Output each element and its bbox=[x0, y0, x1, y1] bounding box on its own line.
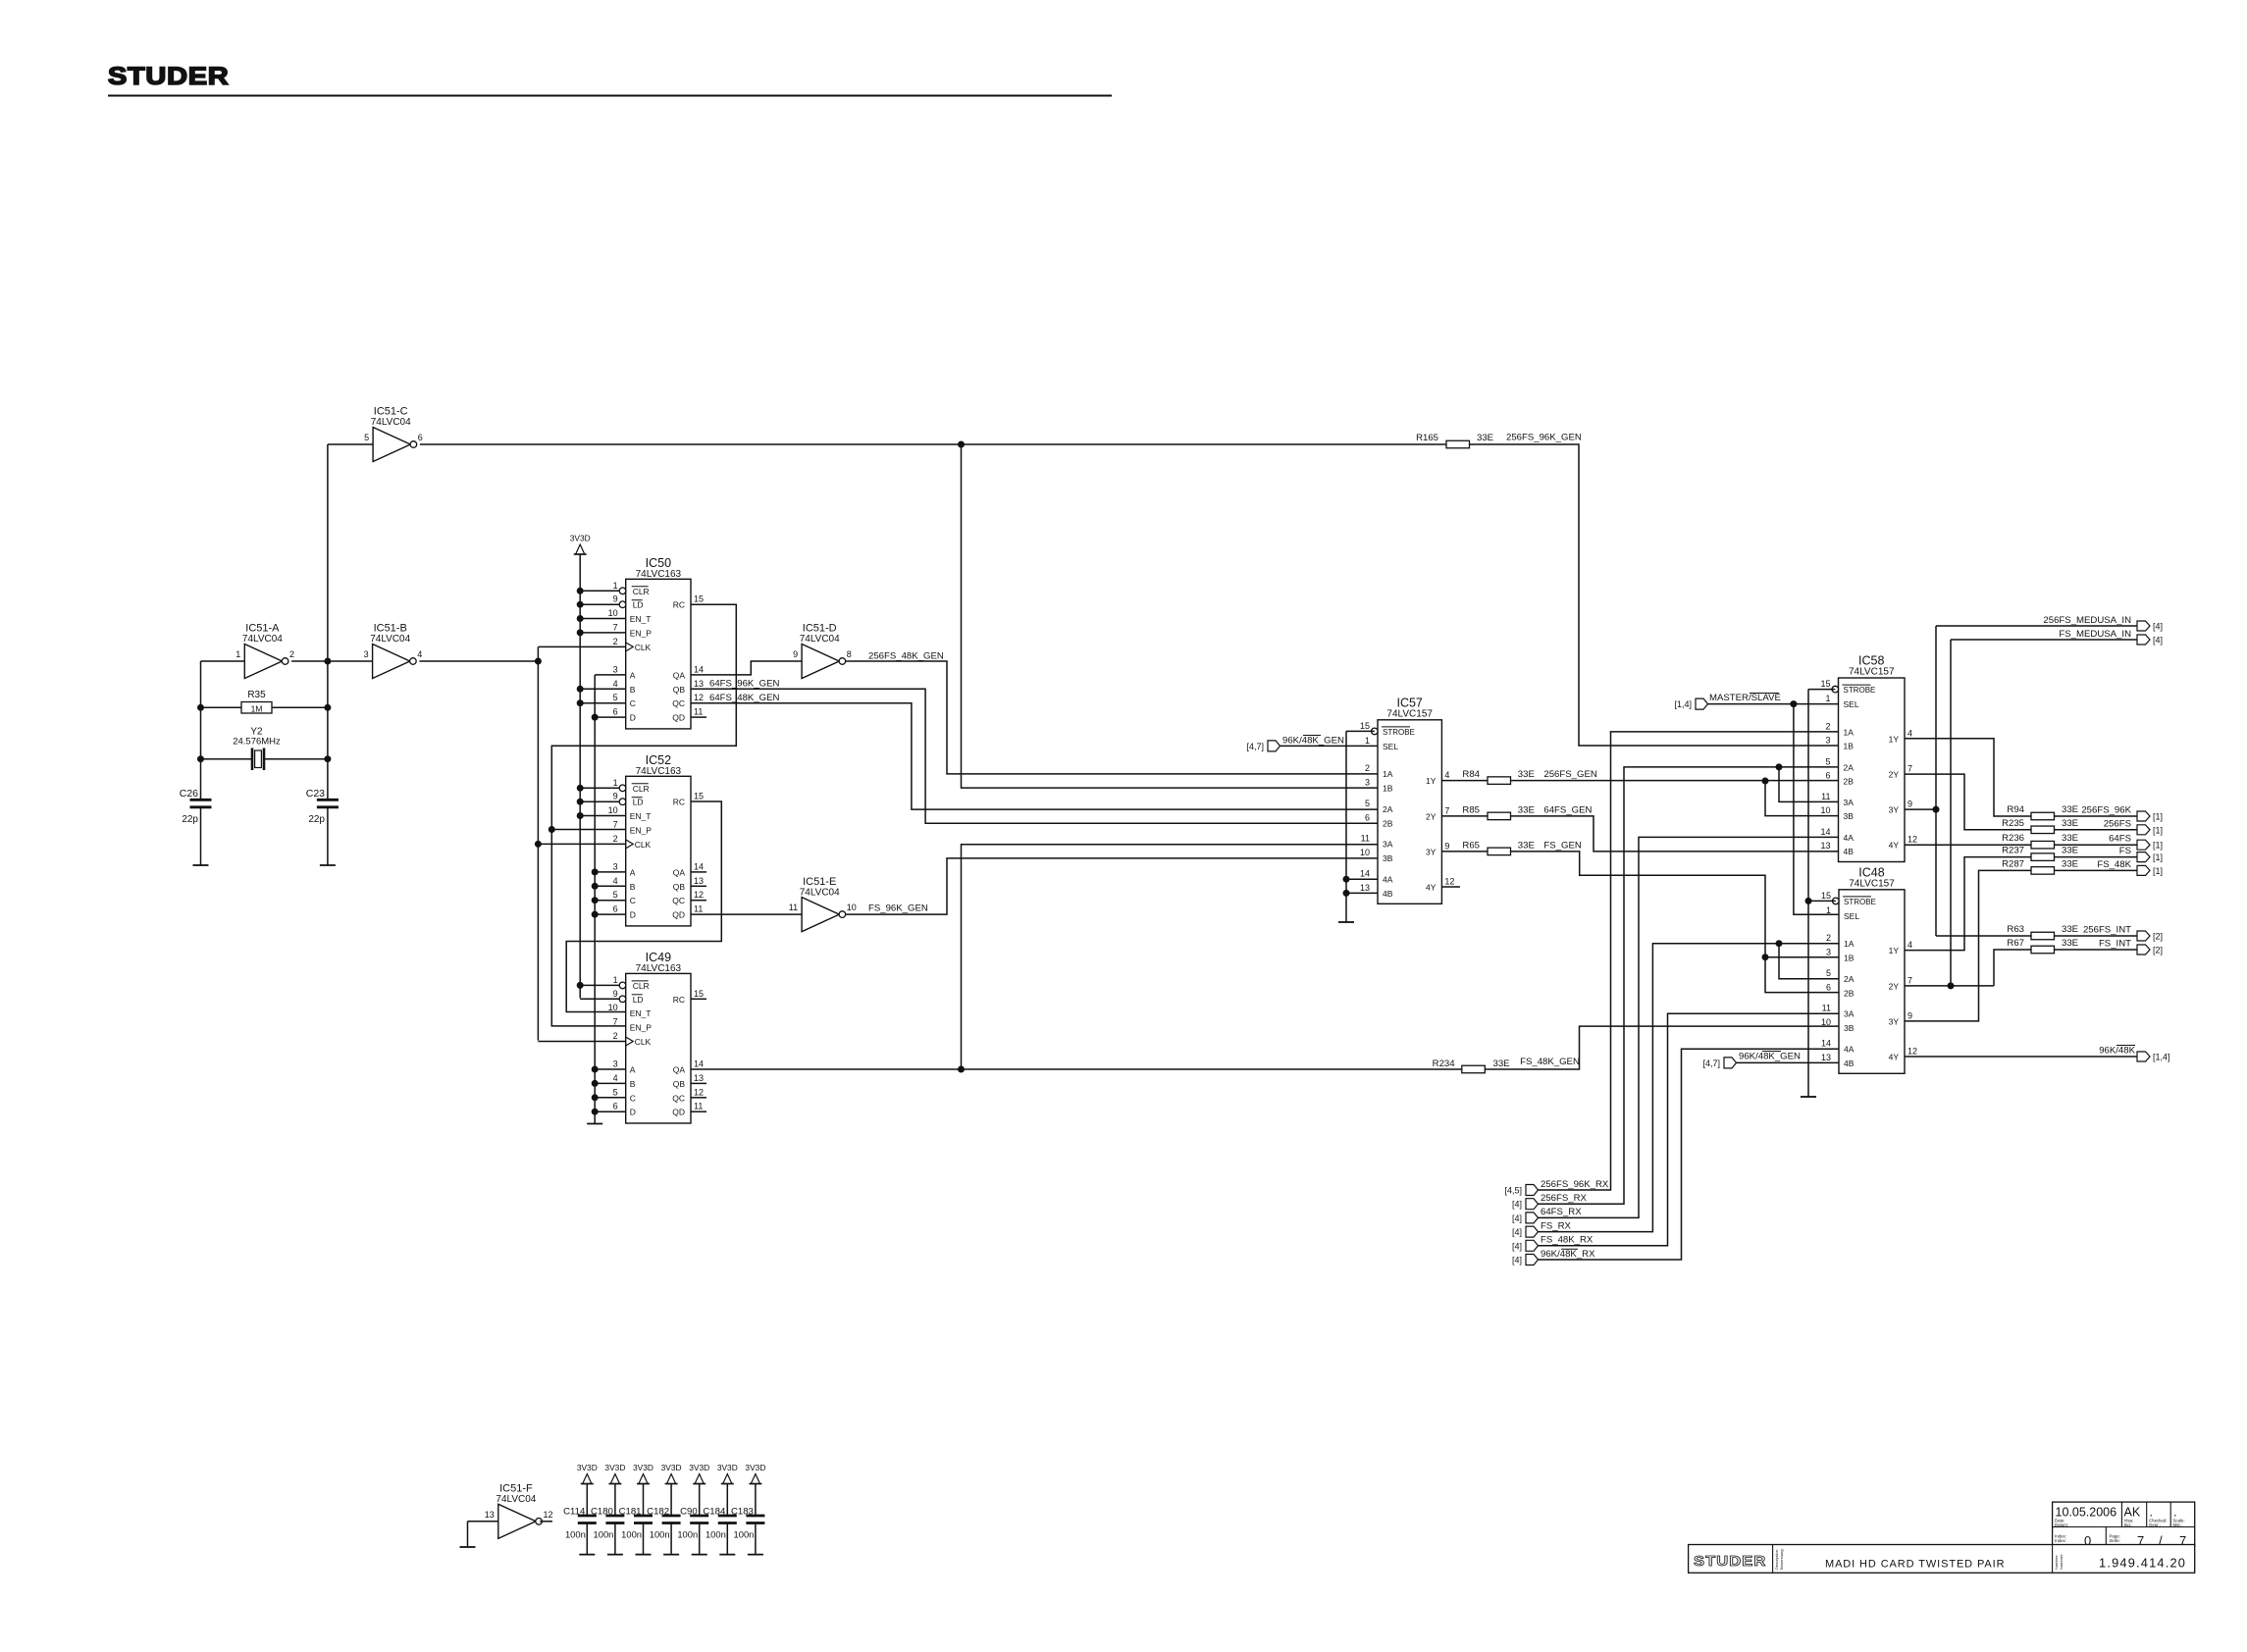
wire IC57 4A tie bbox=[1346, 878, 1378, 880]
flag FS_48K output bbox=[2137, 865, 2163, 876]
wire R35 left bbox=[201, 706, 242, 708]
svg-text:1M: 1M bbox=[251, 704, 263, 714]
svg-text:R235: R235 bbox=[2002, 818, 2024, 829]
resistor R65 33E bbox=[1462, 840, 1534, 854]
wire IC49 QD stub bbox=[691, 1110, 706, 1112]
wire SEL rail to IC48 bbox=[1794, 704, 1839, 915]
wire R234 left from IC49 QA bbox=[1461, 1068, 1463, 1070]
svg-text:RC: RC bbox=[673, 600, 685, 610]
svg-text:4: 4 bbox=[1907, 728, 1912, 738]
svg-text:STROBE: STROBE bbox=[1844, 898, 1876, 906]
svg-text:3V3D: 3V3D bbox=[689, 1463, 709, 1472]
wire net 64FS_48K_GEN QC to IC57 2A bbox=[691, 703, 1378, 809]
wire Y2 left bbox=[201, 758, 252, 760]
ground below C181 bbox=[636, 1554, 652, 1556]
junction 3V3D IC52 LD bbox=[577, 799, 584, 805]
svg-text:C: C bbox=[630, 698, 636, 708]
overline SLAVE in MASTER/SLAVE bbox=[1750, 693, 1779, 695]
label net 64FS_96K_GEN bbox=[709, 679, 780, 690]
svg-text:FS_48K: FS_48K bbox=[2097, 859, 2131, 870]
junction ABCD IC52 C bbox=[592, 897, 599, 903]
junction 3V3D IC50 B bbox=[577, 686, 584, 693]
svg-text:EN_P: EN_P bbox=[630, 1023, 653, 1033]
svg-text:B: B bbox=[630, 1079, 636, 1089]
svg-text:IC58: IC58 bbox=[1858, 654, 1884, 668]
wire net FS_MEDUSA_IN bbox=[1951, 639, 2137, 641]
junction strobe rail at IC48 bbox=[1805, 898, 1812, 904]
svg-text:QD: QD bbox=[672, 1108, 685, 1117]
svg-text:64FS_96K_GEN: 64FS_96K_GEN bbox=[709, 679, 780, 690]
junction 3V3D IC50 CLR bbox=[577, 588, 584, 594]
resistor R234 33E bbox=[1433, 1058, 1510, 1073]
svg-text:4B: 4B bbox=[1844, 847, 1855, 856]
svg-text:EN_T: EN_T bbox=[630, 811, 652, 821]
svg-text:7: 7 bbox=[1907, 975, 1912, 985]
resistor R94 33E bbox=[2007, 804, 2078, 820]
capacitor C182 100n bbox=[647, 1507, 680, 1540]
inverter IC51-C 74LVC04 bbox=[364, 406, 423, 462]
svg-text:13: 13 bbox=[1820, 841, 1830, 851]
svg-text:[1]: [1] bbox=[2153, 812, 2163, 822]
flag 96K/48K_GEN input to IC48 4B bbox=[1702, 1058, 1736, 1068]
wire IC58 2B to 3B jumper bbox=[1765, 781, 1839, 816]
wire IC52 QB stub bbox=[691, 885, 706, 887]
svg-text:6: 6 bbox=[1365, 812, 1370, 822]
svg-text:QD: QD bbox=[672, 713, 685, 723]
svg-text:4Y: 4Y bbox=[1889, 1053, 1900, 1062]
svg-text:[4]: [4] bbox=[1512, 1227, 1522, 1237]
junction CLK rail IC52 bbox=[535, 841, 542, 848]
ground IC51-F input bbox=[460, 1546, 476, 1548]
svg-text:100n: 100n bbox=[734, 1529, 755, 1540]
svg-text:3V3D: 3V3D bbox=[577, 1463, 598, 1472]
label net 64FS_48K_GEN bbox=[709, 693, 780, 703]
wire IC51-F input to ground bbox=[467, 1522, 469, 1547]
svg-text:13: 13 bbox=[694, 679, 704, 689]
wire IC49 CLR from 3V3D rail bbox=[580, 984, 619, 986]
wire IC52 QD to IC51-E bbox=[691, 913, 802, 915]
svg-text:LD: LD bbox=[633, 600, 644, 610]
svg-text:Seite:: Seite: bbox=[2110, 1538, 2120, 1543]
svg-text:256FS: 256FS bbox=[2104, 818, 2131, 829]
svg-text:3V3D: 3V3D bbox=[717, 1463, 738, 1472]
svg-text:6: 6 bbox=[1825, 771, 1830, 781]
junction FS_48K_GEN to IC57 3A bbox=[958, 1066, 965, 1073]
junction 3V3D IC50 EN_T bbox=[577, 615, 584, 622]
counter IC49 74LVC163 bbox=[608, 951, 704, 1123]
wire 256FS_MEDUSA_IN riser bbox=[1935, 626, 1937, 936]
svg-text:C183: C183 bbox=[731, 1507, 754, 1518]
svg-text:1.949.414.20: 1.949.414.20 bbox=[2099, 1556, 2186, 1571]
flag FS_RX input bbox=[1512, 1226, 1539, 1237]
wire 3V3D to C184 bbox=[726, 1484, 728, 1516]
svg-text:Index:: Index: bbox=[2055, 1538, 2066, 1543]
svg-text:CLR: CLR bbox=[633, 981, 650, 991]
label net MASTER/SLAVE bbox=[1709, 693, 1781, 703]
header rule bbox=[108, 95, 1112, 97]
svg-text:CLK: CLK bbox=[635, 840, 652, 850]
svg-text:74LVC04: 74LVC04 bbox=[370, 634, 410, 645]
wire R236 to flag bbox=[2055, 844, 2138, 846]
svg-text:33E: 33E bbox=[2062, 818, 2078, 829]
wire IC58 4Y to R236 bbox=[1905, 844, 2031, 846]
label net 256FS_INT bbox=[2083, 925, 2131, 936]
svg-text:A: A bbox=[630, 670, 636, 680]
svg-text:R234: R234 bbox=[1433, 1058, 1456, 1069]
svg-text:C181: C181 bbox=[619, 1507, 642, 1518]
flag FS_MEDUSA_IN output bbox=[2137, 635, 2163, 645]
svg-text:IC51-F: IC51-F bbox=[499, 1483, 533, 1495]
svg-text:FS_MEDUSA_IN: FS_MEDUSA_IN bbox=[2059, 629, 2131, 640]
wire net 64FS_96K_GEN QB to IC57 2B bbox=[691, 689, 1378, 823]
wire IC50 LD from 3V3D rail bbox=[580, 603, 619, 605]
power symbol 3V3D for C90 bbox=[689, 1463, 709, 1484]
svg-text:74LVC157: 74LVC157 bbox=[1386, 708, 1433, 719]
svg-text:[1]: [1] bbox=[2153, 852, 2163, 862]
flag 256FS output bbox=[2137, 825, 2163, 836]
junction 3V3D IC49 CLR bbox=[577, 982, 584, 989]
STUDER logo header bbox=[108, 62, 229, 90]
label net FS_GEN bbox=[1543, 840, 1581, 851]
svg-text:[1,4]: [1,4] bbox=[2153, 1053, 2170, 1062]
ground below C183 bbox=[748, 1554, 763, 1556]
svg-text:74LVC04: 74LVC04 bbox=[800, 887, 840, 898]
svg-text:2: 2 bbox=[613, 1031, 618, 1041]
svg-text:.: . bbox=[2173, 1506, 2176, 1520]
svg-text:SEL: SEL bbox=[1383, 742, 1398, 751]
svg-text:33E: 33E bbox=[1493, 1058, 1510, 1069]
svg-text:3: 3 bbox=[613, 861, 618, 871]
svg-text:12: 12 bbox=[694, 1087, 704, 1097]
svg-text:QD: QD bbox=[672, 910, 685, 920]
wire IC58 STROBE from strobe rail bbox=[1808, 689, 1835, 691]
svg-text:[4]: [4] bbox=[1512, 1241, 1522, 1251]
svg-text:2A: 2A bbox=[1844, 974, 1855, 984]
label net 256FS_MEDUSA_IN bbox=[2043, 615, 2131, 626]
svg-text:11: 11 bbox=[694, 707, 703, 717]
svg-text:3: 3 bbox=[1365, 777, 1370, 787]
resistor R235 33E bbox=[2002, 818, 2078, 834]
capacitor C114 100n bbox=[563, 1507, 597, 1540]
svg-text:13: 13 bbox=[694, 1073, 704, 1083]
power symbol 3V3D main rail bbox=[570, 534, 591, 555]
svg-text:4: 4 bbox=[1907, 940, 1912, 950]
wire IC50 CLR from 3V3D rail bbox=[580, 590, 619, 592]
wire strobe rail x=1843 to ground bbox=[1807, 690, 1809, 1097]
junction Y2 left bbox=[197, 755, 204, 762]
svg-text:D: D bbox=[630, 910, 636, 920]
svg-text:14: 14 bbox=[694, 664, 704, 674]
svg-text:100n: 100n bbox=[565, 1529, 586, 1540]
wire IC50 EN_T bbox=[580, 618, 626, 620]
svg-text:A: A bbox=[630, 1065, 636, 1075]
svg-text:100n: 100n bbox=[621, 1529, 642, 1540]
wire 96K/48K_GEN to IC57 SEL bbox=[1280, 745, 1379, 747]
wire 3V3D rail x=591.2 bbox=[579, 554, 581, 998]
wire left rail x=204.5 (IC51-A input to C26) bbox=[200, 661, 202, 800]
wire to R63 bbox=[1936, 935, 2031, 937]
wire IC51-A input from left rail bbox=[201, 660, 245, 662]
svg-text:EN_P: EN_P bbox=[630, 825, 653, 835]
wire net FS_48K_GEN IC49 QA to R234 bbox=[691, 1068, 1462, 1070]
svg-text:14: 14 bbox=[1820, 827, 1830, 837]
svg-text:C26: C26 bbox=[180, 788, 198, 800]
power symbol 3V3D for C183 bbox=[745, 1463, 765, 1484]
flag FS output bbox=[2137, 852, 2163, 863]
svg-text:33E: 33E bbox=[2062, 938, 2078, 949]
title block bottom band bbox=[1689, 1545, 2195, 1574]
wire IC52 EN_T bbox=[580, 815, 626, 817]
svg-text:13: 13 bbox=[694, 876, 704, 886]
junction IC57 4B on ground rail bbox=[1343, 890, 1350, 897]
label net 96K/48K bbox=[2099, 1046, 2135, 1057]
label net FS_INT bbox=[2099, 939, 2131, 950]
capacitor C23 22p bbox=[306, 788, 339, 825]
svg-text:256FS_96K_RX: 256FS_96K_RX bbox=[1541, 1179, 1609, 1190]
svg-text:13: 13 bbox=[1360, 883, 1370, 893]
svg-text:.: . bbox=[2150, 1506, 2153, 1520]
label net FS bbox=[2119, 846, 2131, 856]
svg-text:3: 3 bbox=[1826, 947, 1831, 956]
svg-text:IC51-E: IC51-E bbox=[803, 876, 836, 888]
flag 96K/48K output bbox=[2137, 1052, 2170, 1062]
inverter IC51-A 74LVC04 bbox=[235, 623, 294, 679]
svg-text:1: 1 bbox=[613, 975, 618, 985]
svg-text:IC50: IC50 bbox=[646, 556, 671, 570]
svg-text:96K/48K_RX: 96K/48K_RX bbox=[1541, 1249, 1595, 1260]
svg-text:QA: QA bbox=[673, 867, 686, 877]
svg-text:3V3D: 3V3D bbox=[604, 1463, 625, 1472]
wire IC50 B from 3V3D rail bbox=[580, 688, 626, 690]
junction ABCD IC52 D bbox=[592, 911, 599, 918]
svg-text:IC57: IC57 bbox=[1396, 696, 1422, 709]
wire net 256FS_MEDUSA_IN bbox=[1936, 625, 2137, 627]
svg-text:33E: 33E bbox=[2062, 924, 2078, 935]
wire C183 to ground bbox=[755, 1523, 757, 1555]
svg-text:IC51-A: IC51-A bbox=[245, 623, 280, 635]
wire 3V3D to C180 bbox=[614, 1484, 616, 1516]
svg-text:1A: 1A bbox=[1844, 727, 1855, 737]
svg-text:9: 9 bbox=[613, 792, 618, 801]
wire IC48 3Y to R287 bbox=[1905, 870, 2031, 1021]
svg-text:7: 7 bbox=[1907, 764, 1912, 774]
svg-text:10: 10 bbox=[608, 608, 618, 618]
junction IC58 2A-3A jumper bbox=[1776, 763, 1783, 770]
ground below C90 bbox=[692, 1554, 707, 1556]
svg-text:1: 1 bbox=[1825, 694, 1830, 703]
svg-text:QA: QA bbox=[673, 1065, 686, 1075]
svg-text:14: 14 bbox=[1821, 1039, 1831, 1049]
wire IC51-C input bbox=[328, 443, 373, 445]
svg-text:4: 4 bbox=[1444, 770, 1449, 780]
svg-text:4A: 4A bbox=[1383, 875, 1393, 885]
svg-text:64FS: 64FS bbox=[2109, 834, 2131, 845]
svg-text:3: 3 bbox=[613, 664, 618, 674]
svg-text:3V3D: 3V3D bbox=[570, 534, 591, 543]
svg-text:11: 11 bbox=[1821, 792, 1830, 801]
junction ABCD IC49 A bbox=[592, 1066, 599, 1073]
svg-text:13: 13 bbox=[485, 1510, 495, 1520]
wire R235 to flag bbox=[2055, 829, 2138, 831]
wire IC50 EN_P bbox=[580, 632, 626, 634]
wire IC57 2Y to R85 bbox=[1441, 815, 1488, 817]
wire IC48 1Y to R237 bbox=[1905, 857, 2031, 951]
svg-text:D: D bbox=[630, 1108, 636, 1117]
svg-text:3Y: 3Y bbox=[1889, 1016, 1900, 1026]
label net 256FS_GEN bbox=[1543, 769, 1596, 780]
svg-text:Datum:: Datum: bbox=[2055, 1523, 2068, 1527]
svg-text:FS_GEN: FS_GEN bbox=[1543, 840, 1581, 851]
ground below C23 bbox=[320, 864, 336, 866]
svg-text:3V3D: 3V3D bbox=[745, 1463, 765, 1472]
svg-text:3B: 3B bbox=[1383, 853, 1393, 863]
wire IC50 RC loop bbox=[551, 604, 736, 829]
label net FS_48K_GEN bbox=[1520, 1057, 1580, 1067]
wire 256FS_96K_GEN net from IC51-C to R165 bbox=[420, 443, 1446, 445]
svg-text:96K/48K_GEN: 96K/48K_GEN bbox=[1282, 736, 1344, 747]
svg-text:4A: 4A bbox=[1844, 833, 1855, 843]
ground below C114 bbox=[579, 1554, 595, 1556]
junction 3V3D IC52 EN_T bbox=[577, 812, 584, 819]
resistor R85 33E bbox=[1462, 804, 1534, 819]
svg-text:10: 10 bbox=[1360, 848, 1370, 857]
svg-text:2: 2 bbox=[289, 649, 294, 659]
title block upper box bbox=[2053, 1502, 2195, 1548]
junction CLK rail at IC51-B output bbox=[535, 658, 542, 665]
svg-text:QB: QB bbox=[673, 1079, 686, 1089]
svg-text:3: 3 bbox=[613, 1059, 618, 1069]
wire ABCD rail x=606.2 bbox=[594, 675, 596, 1124]
svg-text:FS_RX: FS_RX bbox=[1541, 1220, 1572, 1231]
wire IC52 CLK from CLK rail bbox=[538, 843, 625, 845]
svg-text:STUDER: STUDER bbox=[108, 62, 229, 90]
wire IC49 QC stub bbox=[691, 1097, 706, 1099]
svg-text:5: 5 bbox=[613, 890, 618, 900]
svg-text:[1]: [1] bbox=[2153, 825, 2163, 835]
junction 3V3D IC50 C bbox=[577, 699, 584, 706]
resistor R63 33E bbox=[2007, 924, 2078, 940]
svg-text:1: 1 bbox=[613, 778, 618, 788]
svg-text:C: C bbox=[630, 1093, 636, 1103]
ground below C180 bbox=[607, 1554, 623, 1556]
svg-text:13: 13 bbox=[1821, 1053, 1831, 1062]
svg-text:QC: QC bbox=[672, 698, 685, 708]
wire IC57 3Y to R65 bbox=[1441, 851, 1488, 852]
svg-text:C23: C23 bbox=[306, 788, 325, 800]
svg-text:2Y: 2Y bbox=[1889, 981, 1900, 991]
svg-text:256FS_48K_GEN: 256FS_48K_GEN bbox=[868, 651, 944, 662]
svg-text:C: C bbox=[630, 896, 636, 905]
svg-text:7: 7 bbox=[613, 1017, 618, 1027]
label net 96K/48K_GEN at IC57 bbox=[1282, 736, 1344, 747]
wire IC49 A from ABCD rail bbox=[595, 1068, 626, 1070]
flag FS_48K_RX input bbox=[1512, 1240, 1539, 1251]
svg-text:14: 14 bbox=[694, 861, 704, 871]
wire 96K/48K_RX to IC48 4A bbox=[1539, 1049, 1839, 1260]
wire IC58 1Y to R94 bbox=[1905, 739, 2031, 816]
svg-text:QB: QB bbox=[673, 882, 686, 892]
junction ABCD IC49 C bbox=[592, 1094, 599, 1101]
wire IC57 4B tie bbox=[1346, 892, 1378, 894]
svg-text:A: A bbox=[630, 867, 636, 877]
svg-text:3: 3 bbox=[364, 649, 369, 659]
wire IC52 C from ABCD rail bbox=[595, 900, 626, 902]
wire R67 bend rise bbox=[1994, 950, 2031, 986]
svg-text:[4]: [4] bbox=[1512, 1200, 1522, 1210]
wire IC57 4Y stub bbox=[1441, 886, 1460, 888]
junction EN_P rail at IC52 bbox=[549, 826, 555, 833]
svg-text:1Y: 1Y bbox=[1889, 946, 1900, 955]
wire 3V3D to C182 bbox=[670, 1484, 672, 1516]
svg-text:74LVC157: 74LVC157 bbox=[1849, 667, 1895, 678]
svg-text:4A: 4A bbox=[1844, 1045, 1855, 1055]
wire IC48 STROBE from strobe rail bbox=[1808, 900, 1836, 902]
svg-text:12: 12 bbox=[694, 890, 704, 900]
svg-text:9: 9 bbox=[1907, 800, 1912, 809]
inverter IC51-B 74LVC04 bbox=[364, 623, 423, 679]
junction R35 left bbox=[197, 704, 204, 711]
ground IC57 strobe rail bbox=[1338, 921, 1354, 923]
svg-text:R84: R84 bbox=[1462, 769, 1480, 780]
svg-text:74LVC163: 74LVC163 bbox=[636, 963, 682, 974]
STUDER logo in title block bbox=[1694, 1554, 1766, 1570]
svg-text:3Y: 3Y bbox=[1426, 847, 1437, 856]
label net FS_48K_RX bbox=[1541, 1235, 1594, 1246]
label net 256FS_96K bbox=[2081, 805, 2131, 816]
wire C114 to ground bbox=[586, 1523, 588, 1555]
svg-text:3: 3 bbox=[1825, 736, 1830, 746]
svg-text:B: B bbox=[630, 685, 636, 695]
junction ABCD IC50 D bbox=[592, 714, 599, 721]
label net 256FS_RX bbox=[1541, 1193, 1588, 1204]
svg-text:3V3D: 3V3D bbox=[633, 1463, 653, 1472]
svg-text:FS_48K_GEN: FS_48K_GEN bbox=[1520, 1057, 1580, 1067]
svg-text:11: 11 bbox=[789, 903, 798, 912]
svg-text:2B: 2B bbox=[1844, 777, 1855, 787]
svg-text:CLR: CLR bbox=[633, 784, 650, 794]
svg-text:[1,4]: [1,4] bbox=[1674, 699, 1692, 709]
svg-text:9: 9 bbox=[1444, 841, 1449, 851]
svg-text:3A: 3A bbox=[1844, 798, 1855, 807]
wire IC51-B output to CLK rail junction bbox=[419, 660, 538, 662]
svg-text:FS: FS bbox=[2119, 846, 2131, 856]
svg-text:12: 12 bbox=[544, 1510, 553, 1520]
svg-text:1: 1 bbox=[613, 581, 618, 591]
power symbol 3V3D for C184 bbox=[717, 1463, 738, 1484]
svg-text:1A: 1A bbox=[1844, 939, 1855, 949]
wire R63 to flag bbox=[2055, 935, 2138, 937]
wire net FS_GEN R65 to IC48 1B/2B bbox=[1511, 852, 1839, 993]
svg-text:15: 15 bbox=[694, 792, 704, 801]
power symbol 3V3D for C180 bbox=[604, 1463, 625, 1484]
svg-text:MADI HD CARD TWISTED PAIR: MADI HD CARD TWISTED PAIR bbox=[1825, 1559, 2005, 1571]
svg-text:96K/48K_GEN: 96K/48K_GEN bbox=[1739, 1052, 1801, 1062]
svg-text:EN_T: EN_T bbox=[630, 614, 652, 624]
svg-text:RC: RC bbox=[673, 798, 685, 807]
label net 256FS bbox=[2104, 818, 2131, 829]
capacitor C90 100n bbox=[677, 1507, 708, 1540]
mux IC57 74LVC157 bbox=[1360, 696, 1454, 903]
svg-text:R63: R63 bbox=[2007, 924, 2024, 935]
svg-text:FS_48K_RX: FS_48K_RX bbox=[1541, 1235, 1594, 1246]
svg-text:Nummer:: Nummer: bbox=[2059, 1554, 2064, 1570]
label net 64FS bbox=[2109, 834, 2131, 845]
wire IC49 CLK from CLK rail bbox=[538, 1041, 625, 1043]
ground below C182 bbox=[663, 1554, 679, 1556]
wire IC48 1A to 2A jumper bbox=[1779, 944, 1839, 979]
svg-text:[4]: [4] bbox=[2153, 636, 2163, 645]
svg-text:4B: 4B bbox=[1383, 889, 1393, 899]
